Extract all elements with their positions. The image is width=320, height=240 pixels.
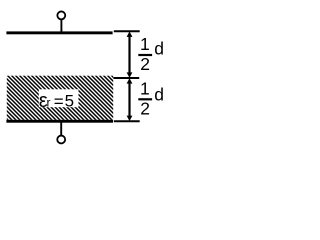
top plate	[6, 31, 112, 34]
label fraction 1/2 d (upper)	[138, 34, 164, 74]
label fraction 1/2 d (lower)	[138, 79, 164, 119]
wire: top lead	[60, 19, 62, 32]
svg-text:2: 2	[140, 99, 150, 119]
svg-text:5: 5	[65, 92, 74, 111]
extension tick top	[114, 30, 140, 32]
wire: bottom lead	[60, 123, 62, 136]
extension tick bottom	[114, 120, 140, 122]
svg-text:1: 1	[140, 79, 150, 99]
bottom plate	[6, 120, 113, 123]
label background box	[39, 89, 79, 107]
bottom terminal circle	[57, 136, 65, 144]
svg-text:1: 1	[140, 34, 150, 54]
svg-text:d: d	[154, 39, 164, 59]
svg-text:=: =	[54, 92, 64, 111]
top terminal circle	[57, 11, 65, 19]
dimension arrow upper (1/2 d)	[127, 31, 133, 78]
dimension arrow lower (1/2 d)	[127, 78, 133, 121]
svg-text:r: r	[47, 96, 51, 110]
dielectric (hatched)	[7, 76, 113, 120]
extension tick middle	[113, 77, 139, 79]
svg-text:2: 2	[140, 54, 150, 74]
svg-text:d: d	[154, 85, 164, 105]
